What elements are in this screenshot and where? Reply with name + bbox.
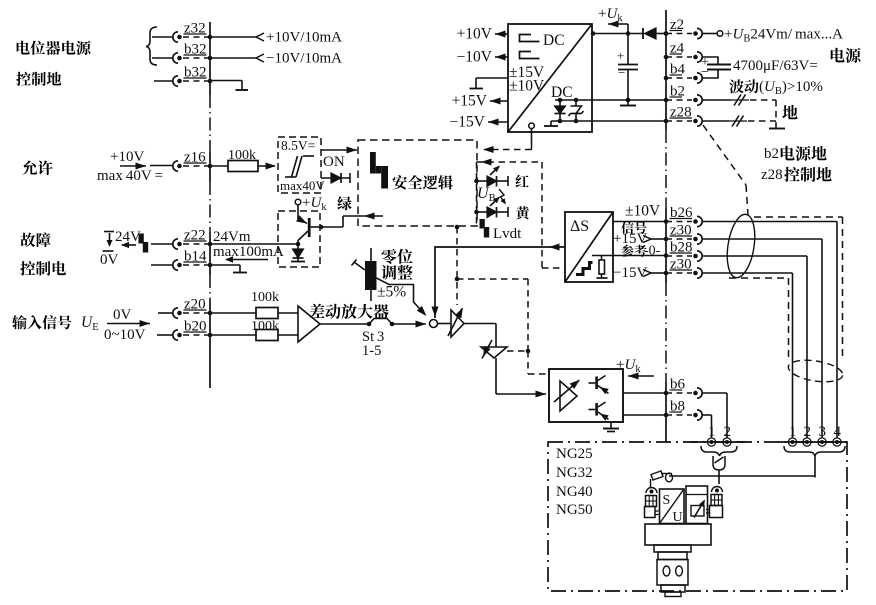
svg-text:+UB24Vm/ max...A: +UB24Vm/ max...A: [724, 27, 843, 45]
svg-text:100k: 100k: [251, 290, 279, 305]
svg-text:max100mA: max100mA: [213, 244, 284, 260]
svg-text:S: S: [663, 493, 671, 508]
svg-text:4700μF/63V=: 4700μF/63V=: [733, 58, 818, 74]
svg-text:+15V: +15V: [452, 93, 488, 110]
svg-text:NG50: NG50: [556, 502, 593, 518]
svg-text:max 40V =: max 40V =: [97, 168, 163, 184]
svg-text:0V: 0V: [113, 307, 132, 323]
svg-text:+10V/10mA: +10V/10mA: [266, 30, 342, 46]
svg-text:±10V: ±10V: [509, 78, 545, 95]
svg-text:ON: ON: [323, 154, 345, 170]
svg-text:−: −: [701, 65, 709, 80]
svg-text:b2: b2: [764, 146, 779, 162]
svg-text:(UB)>10%: (UB)>10%: [759, 79, 823, 97]
svg-text:DC: DC: [551, 84, 573, 101]
svg-text:−10V/10mA: −10V/10mA: [266, 51, 342, 67]
svg-text:±10V: ±10V: [625, 203, 661, 220]
svg-text:+: +: [617, 48, 624, 63]
svg-text:NG25: NG25: [556, 446, 593, 462]
svg-text:z28: z28: [761, 167, 783, 183]
svg-text:DC: DC: [543, 32, 565, 49]
svg-text:−15V: −15V: [613, 265, 647, 281]
svg-text:1-5: 1-5: [362, 343, 381, 359]
svg-text:-0-: -0-: [644, 244, 661, 259]
svg-text:NG40: NG40: [556, 484, 593, 500]
svg-text:±5%: ±5%: [377, 284, 406, 301]
svg-text:ΔS: ΔS: [570, 218, 589, 235]
svg-text:U: U: [673, 510, 683, 525]
svg-text:0V: 0V: [100, 252, 119, 268]
svg-text:24Vm: 24Vm: [213, 229, 251, 245]
svg-text:0~10V: 0~10V: [104, 327, 146, 343]
svg-text:+10V: +10V: [457, 26, 493, 43]
svg-text:max40V: max40V: [280, 178, 325, 193]
svg-text:Lvdt: Lvdt: [493, 226, 522, 242]
svg-text:+15V: +15V: [613, 231, 647, 247]
svg-text:−15V: −15V: [450, 114, 486, 131]
svg-text:+10V: +10V: [110, 149, 144, 165]
svg-text:−: −: [618, 65, 625, 80]
svg-text:8.5V=: 8.5V=: [281, 138, 315, 153]
svg-text:NG32: NG32: [556, 465, 593, 481]
svg-text:−10V: −10V: [457, 49, 493, 66]
